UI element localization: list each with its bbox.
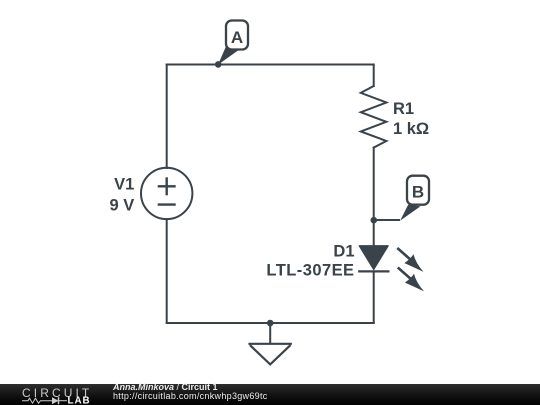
wire right vertical top (to R1): [373, 65, 375, 87]
node A pointer: [218, 46, 239, 65]
LED arrow 1: [397, 248, 423, 272]
svg-text:V1: V1: [114, 176, 134, 194]
footer bar: [0, 384, 540, 405]
voltage source V1: [141, 168, 192, 219]
svg-text:1 kΩ: 1 kΩ: [393, 120, 429, 138]
svg-text:A: A: [231, 28, 243, 47]
LED arrow 2: [398, 268, 424, 292]
wire left vertical bottom (V1 minus to bottom rail): [166, 219, 168, 323]
wire R1 to D1: [373, 148, 375, 246]
wire left vertical top (to V1 plus terminal): [166, 65, 168, 169]
node B flag box: [407, 176, 429, 205]
svg-text:D1: D1: [333, 242, 354, 260]
ground stub wire: [269, 323, 271, 344]
wire top horizontal from node to R1 branch: [167, 64, 374, 66]
ground dot: [267, 320, 274, 327]
wire bottom rail: [167, 322, 374, 324]
svg-text:LAB: LAB: [68, 396, 91, 405]
svg-text:9 V: 9 V: [110, 197, 135, 215]
svg-text:LTL-307EE: LTL-307EE: [266, 262, 354, 280]
node B wire stub: [374, 219, 400, 221]
CircuitLab logo: [22, 385, 102, 405]
wire D1 cathode to bottom rail: [373, 271, 375, 323]
resistor R1: [361, 86, 387, 148]
node B pointer: [400, 205, 420, 221]
node A dot: [215, 61, 222, 68]
svg-text:R1: R1: [393, 100, 414, 118]
svg-text:B: B: [412, 182, 424, 201]
node A flag box: [226, 21, 248, 50]
ground triangle: [248, 344, 292, 365]
node B dot: [371, 217, 378, 224]
LED D1 cathode bar: [358, 270, 389, 272]
LED D1 triangle: [359, 246, 388, 270]
